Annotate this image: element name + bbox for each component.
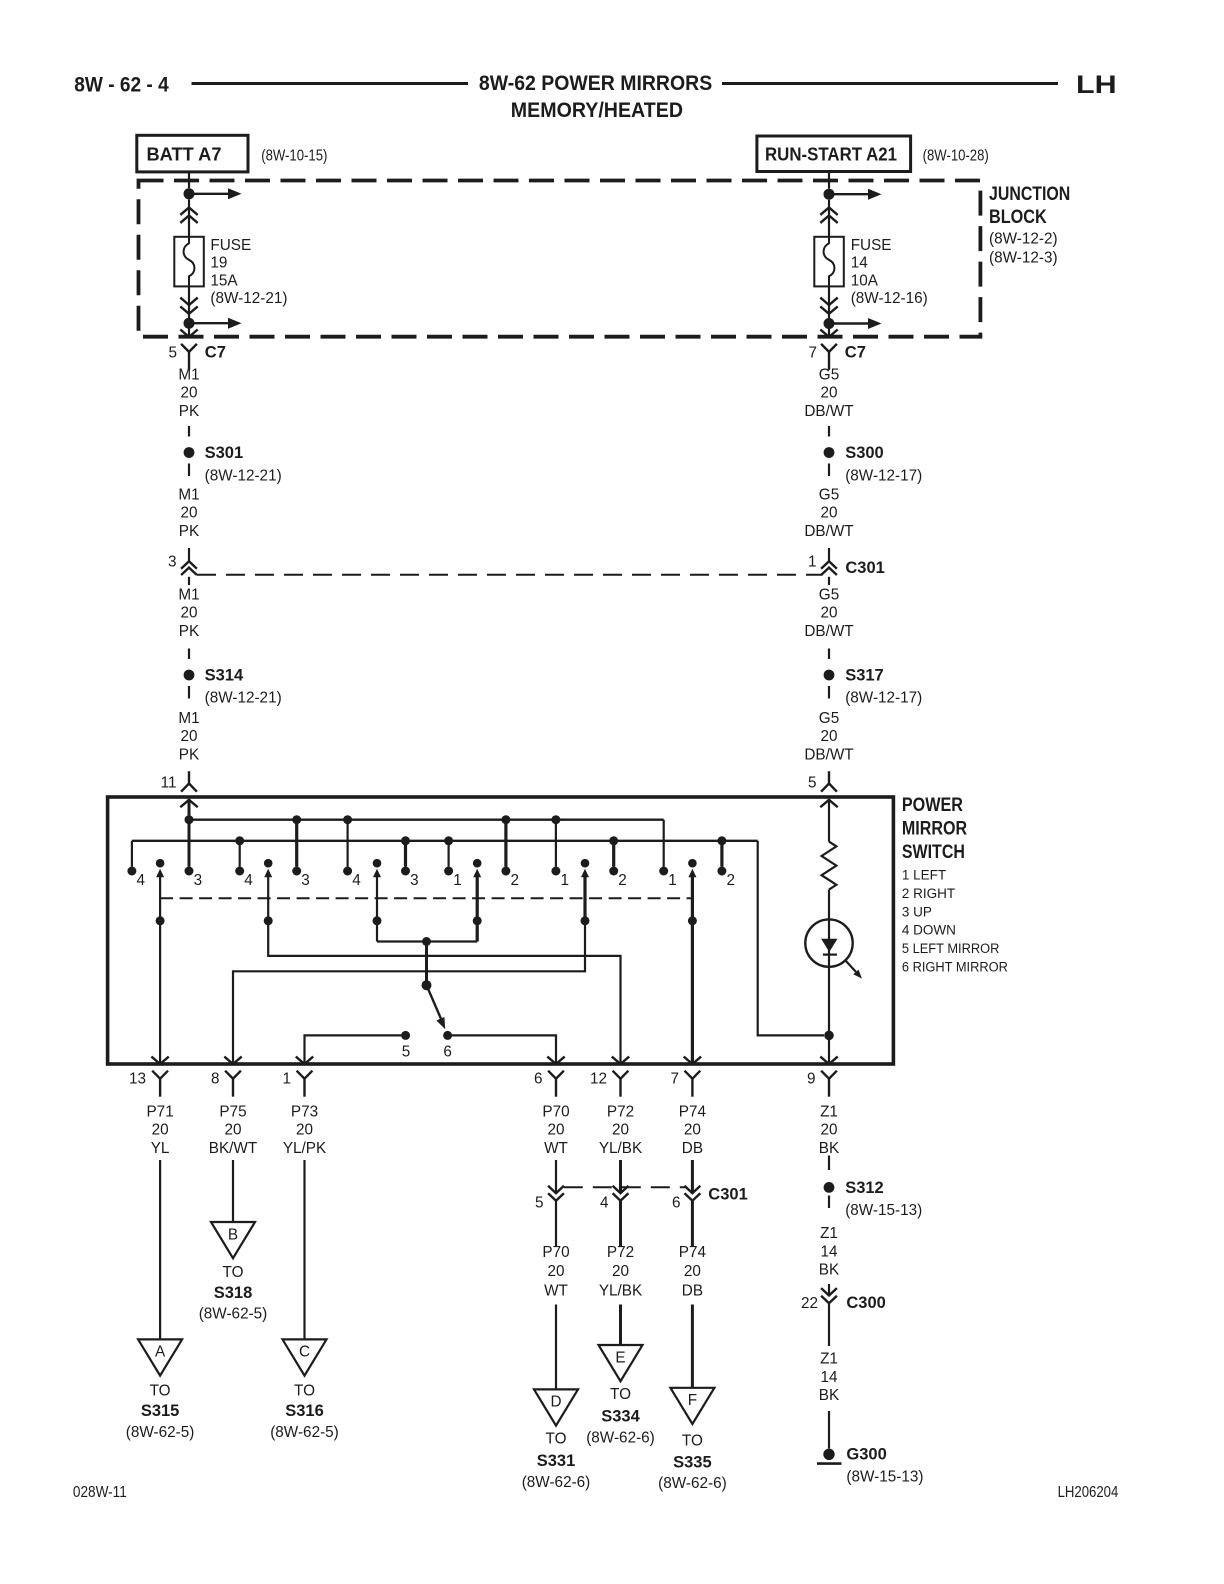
- fixed contact 4 at x=347.6: [343, 867, 352, 876]
- svg-text:3: 3: [194, 872, 203, 889]
- svg-text:2: 2: [727, 872, 736, 889]
- svg-text:G5: G5: [819, 487, 839, 504]
- svg-text:8W - 62 - 4: 8W - 62 - 4: [74, 74, 169, 97]
- wire C301 pin 4 down: [619, 1201, 622, 1246]
- svg-text:PK: PK: [179, 746, 200, 763]
- svg-text:PK: PK: [179, 623, 200, 640]
- fixed contact 2 at x=613.7: [609, 867, 618, 876]
- ground G300: [823, 1449, 834, 1460]
- svg-text:2: 2: [511, 872, 520, 889]
- svg-text:2 RIGHT: 2 RIGHT: [902, 886, 955, 901]
- fixed contact 4 at x=239.7: [235, 867, 244, 876]
- svg-text:(8W-62-5): (8W-62-5): [270, 1424, 339, 1441]
- wire P70 to triangle D: [555, 1305, 557, 1390]
- node battery feed splice: [184, 188, 195, 199]
- connector C301 pin 4: [613, 1186, 629, 1193]
- wire G5 to C301: [828, 548, 830, 561]
- svg-text:TO: TO: [150, 1383, 171, 1400]
- wire stub to contact 3b: [404, 841, 407, 867]
- wire P72 to triangle E: [619, 1305, 622, 1346]
- wire P71 to triangle A: [159, 1160, 161, 1339]
- svg-text:20: 20: [180, 385, 197, 402]
- svg-text:S314: S314: [205, 667, 244, 685]
- wire bus ground right branch to lamp return: [758, 841, 824, 1036]
- off-page triangle A: [138, 1339, 182, 1375]
- svg-text:20: 20: [612, 1122, 629, 1139]
- svg-text:C301: C301: [845, 559, 884, 577]
- svg-text:G5: G5: [819, 367, 839, 384]
- wire P72 to C301: [619, 1160, 622, 1193]
- dashed connector line C301: [197, 574, 823, 576]
- node bus ground tap 5: [717, 836, 726, 845]
- svg-text:(8W-12-21): (8W-12-21): [210, 290, 287, 307]
- connector chevrons fuse 14 output: [820, 298, 837, 305]
- svg-text:P71: P71: [146, 1104, 173, 1121]
- wire stub to contact 4b: [347, 820, 349, 867]
- svg-text:DB: DB: [682, 1282, 703, 1299]
- connector C301 pin 6: [685, 1186, 701, 1193]
- wire M1 to C301: [188, 548, 190, 561]
- svg-text:1: 1: [668, 872, 677, 889]
- svg-text:BATT A7: BATT A7: [147, 144, 222, 165]
- wire stub to contact 2c: [720, 841, 723, 867]
- wire S317 down: [828, 686, 830, 699]
- selector contact 6: [443, 1031, 452, 1040]
- wire C301 pin 1 down: [828, 577, 830, 585]
- svg-text:TO: TO: [546, 1431, 567, 1448]
- power mirror switch outline: [108, 797, 894, 1064]
- svg-text:2: 2: [618, 872, 627, 889]
- fuse 19 15A: [174, 237, 204, 287]
- svg-text:S315: S315: [141, 1402, 180, 1420]
- node bus ground tap 2: [401, 836, 410, 845]
- wire BATT A7 feed into junction block: [188, 172, 190, 188]
- svg-text:WT: WT: [544, 1140, 568, 1157]
- arrow feed to other circuits (top right): [829, 193, 868, 195]
- svg-text:20: 20: [684, 1263, 701, 1280]
- junction block dashed border: [139, 181, 981, 337]
- svg-text:(8W-15-13): (8W-15-13): [845, 1202, 922, 1219]
- svg-text:DB: DB: [682, 1140, 703, 1157]
- resistor illumination: [822, 842, 837, 890]
- node bus B+ tap 1: [292, 815, 301, 824]
- wire C301 pin 5 down: [555, 1201, 557, 1246]
- connector C301 pin 3: [181, 561, 197, 568]
- svg-text:DB/WT: DB/WT: [804, 403, 853, 420]
- svg-text:M1: M1: [178, 367, 199, 384]
- arrow feed to other circuits (top left): [189, 193, 228, 195]
- connector chevrons fuse 19 input: [180, 208, 197, 215]
- svg-text:(8W-62-6): (8W-62-6): [658, 1475, 727, 1492]
- wire wiper6 to pin 7: [691, 921, 694, 1063]
- svg-text:TO: TO: [682, 1433, 703, 1450]
- splice S301: [184, 447, 195, 458]
- svg-text:P70: P70: [542, 1244, 569, 1261]
- svg-text:C7: C7: [845, 344, 866, 362]
- selector contact 5: [401, 1031, 410, 1040]
- connector pin 1: [297, 1071, 313, 1079]
- wire RUN-START A21 feed into junction block: [828, 172, 830, 189]
- node lamp return: [824, 1031, 834, 1041]
- movable contact wiper 2: [264, 859, 273, 868]
- splice S314: [184, 670, 195, 681]
- svg-text:S318: S318: [214, 1284, 253, 1302]
- svg-text:3: 3: [168, 554, 177, 571]
- header rule left: [192, 82, 469, 85]
- svg-text:WT: WT: [544, 1282, 568, 1299]
- svg-text:4: 4: [600, 1195, 609, 1212]
- off-page triangle B: [211, 1222, 255, 1258]
- feed box BATT A7: [137, 135, 248, 172]
- svg-text:20: 20: [296, 1122, 313, 1139]
- svg-text:(8W-62-6): (8W-62-6): [586, 1430, 655, 1447]
- svg-text:S300: S300: [845, 444, 884, 462]
- svg-text:7: 7: [808, 345, 817, 362]
- switch pin 8 exit chevron: [224, 1057, 241, 1064]
- svg-text:A: A: [155, 1344, 166, 1361]
- svg-text:MIRROR: MIRROR: [902, 819, 967, 840]
- svg-text:6: 6: [672, 1195, 681, 1212]
- svg-text:(8W-12-2): (8W-12-2): [989, 231, 1058, 248]
- svg-text:RUN-START A21: RUN-START A21: [765, 144, 897, 165]
- wire lamp return to pin 9: [828, 1035, 830, 1063]
- switch pin 5 entry chevron: [820, 800, 837, 807]
- svg-text:P74: P74: [679, 1244, 707, 1261]
- wire S300 down: [828, 464, 830, 477]
- svg-text:B: B: [228, 1226, 238, 1243]
- svg-text:20: 20: [820, 605, 837, 622]
- off-page triangle C: [283, 1339, 327, 1375]
- node bus B+ tap 3: [501, 815, 510, 824]
- svg-text:13: 13: [129, 1071, 146, 1088]
- svg-text:LH206204: LH206204: [1058, 1484, 1119, 1501]
- wire Z1 to G300: [828, 1411, 830, 1449]
- svg-text:BK: BK: [819, 1140, 840, 1157]
- svg-text:14: 14: [820, 1243, 838, 1260]
- svg-text:F: F: [688, 1392, 697, 1409]
- connector pin 12: [613, 1071, 629, 1079]
- connector chevrons fuse 19 output: [180, 298, 197, 305]
- node fused B+ splice: [184, 318, 195, 329]
- svg-text:20: 20: [547, 1122, 564, 1139]
- wire P70 to C301: [555, 1160, 557, 1193]
- node bus ground tap 4: [609, 836, 618, 845]
- off-page triangle F: [670, 1388, 714, 1424]
- svg-text:20: 20: [180, 728, 197, 745]
- connector C7 pin 7: [821, 344, 837, 352]
- wire P75 to triangle B: [232, 1160, 234, 1222]
- arrow fused output to other circuits (right): [829, 322, 868, 324]
- svg-text:BK/WT: BK/WT: [209, 1140, 257, 1157]
- switch pin 6 exit chevron: [547, 1057, 564, 1064]
- svg-text:9: 9: [807, 1071, 816, 1088]
- wire S314 down: [188, 686, 190, 699]
- svg-text:(8W-62-5): (8W-62-5): [199, 1306, 268, 1323]
- wire C300 down: [828, 1303, 830, 1346]
- wire fuse 14 output: [828, 286, 830, 336]
- svg-text:G5: G5: [819, 710, 839, 727]
- svg-text:PK: PK: [179, 403, 200, 420]
- wire stub to contact 2a: [504, 820, 507, 867]
- svg-text:Z1: Z1: [820, 1351, 838, 1368]
- svg-text:C: C: [299, 1344, 310, 1361]
- svg-text:1: 1: [561, 872, 570, 889]
- svg-text:S335: S335: [673, 1454, 712, 1472]
- splice S300: [824, 447, 835, 458]
- svg-text:G5: G5: [819, 587, 839, 604]
- fixed contact 1 at x=555.9: [551, 867, 560, 876]
- wire stub to contact 1b: [555, 820, 557, 867]
- movable contact wiper 3: [373, 859, 382, 868]
- fuse 14 10A: [814, 237, 844, 287]
- wire stub to contact 2b: [612, 841, 615, 867]
- wire M1 to S301: [188, 426, 190, 437]
- svg-text:P75: P75: [219, 1104, 246, 1121]
- svg-text:YL/BK: YL/BK: [599, 1140, 643, 1157]
- svg-text:DB/WT: DB/WT: [804, 746, 853, 763]
- movable contact wiper 1: [156, 859, 165, 868]
- svg-text:028W-11: 028W-11: [73, 1484, 127, 1501]
- connector C301 pin 5: [548, 1186, 564, 1193]
- svg-text:20: 20: [180, 505, 197, 522]
- svg-text:20: 20: [612, 1263, 629, 1280]
- svg-text:20: 20: [180, 605, 197, 622]
- svg-text:G300: G300: [846, 1446, 886, 1464]
- wire bus ground left corner down to contact 4: [131, 841, 133, 867]
- svg-text:FUSE: FUSE: [851, 237, 892, 254]
- connector pin 6: [548, 1071, 564, 1079]
- connector C7 pin 5: [181, 344, 197, 352]
- svg-text:6: 6: [443, 1044, 452, 1061]
- switch pin 13 exit chevron: [151, 1057, 168, 1064]
- node bus B+ tap 4: [551, 815, 560, 824]
- svg-text:Z1: Z1: [820, 1104, 838, 1121]
- fixed contact 2 at x=721.9: [717, 867, 726, 876]
- svg-text:P70: P70: [542, 1104, 569, 1121]
- switch pin 7 exit chevron: [684, 1057, 701, 1064]
- connector C301 pin 1: [821, 561, 837, 568]
- feed box RUN-START A21: [757, 136, 911, 172]
- wire common to selector pole: [425, 942, 428, 986]
- svg-text:DB/WT: DB/WT: [804, 523, 853, 540]
- svg-text:(8W-12-21): (8W-12-21): [205, 690, 282, 707]
- svg-text:20: 20: [684, 1122, 701, 1139]
- svg-text:(8W-10-28): (8W-10-28): [923, 148, 989, 165]
- svg-text:(8W-15-13): (8W-15-13): [846, 1469, 923, 1486]
- svg-text:P72: P72: [607, 1244, 634, 1261]
- svg-text:YL/PK: YL/PK: [283, 1140, 327, 1157]
- wire fuse 19 output: [188, 286, 190, 336]
- connector pin 13: [152, 1071, 168, 1079]
- wire feed to fuse 19: [188, 199, 190, 237]
- svg-text:(8W-62-5): (8W-62-5): [126, 1424, 195, 1441]
- svg-text:M1: M1: [178, 487, 199, 504]
- arrow fused B+ to other circuits (left): [189, 322, 228, 324]
- svg-text:12: 12: [590, 1071, 607, 1088]
- splice S317: [824, 670, 835, 681]
- svg-text:20: 20: [547, 1263, 564, 1280]
- node fused run-start splice: [824, 318, 835, 329]
- node selector common: [422, 937, 431, 946]
- svg-text:M1: M1: [178, 710, 199, 727]
- svg-text:SWITCH: SWITCH: [902, 842, 965, 863]
- wire stub to contact 1a: [448, 841, 450, 867]
- svg-text:5: 5: [168, 345, 177, 362]
- fixed contact 1 at x=663.7: [659, 867, 668, 876]
- junction block exit chevron right: [820, 330, 837, 337]
- connector C300 pin 22: [821, 1288, 837, 1295]
- wire G5 to S300: [828, 426, 830, 437]
- svg-text:BLOCK: BLOCK: [989, 207, 1047, 228]
- wire C301 down: [188, 577, 190, 585]
- svg-text:(8W-12-16): (8W-12-16): [851, 290, 928, 307]
- svg-text:4 DOWN: 4 DOWN: [902, 923, 956, 938]
- wire wiper4 to common: [476, 921, 479, 942]
- fixed contact 3 at x=405.5: [401, 867, 410, 876]
- svg-text:D: D: [550, 1394, 561, 1411]
- svg-text:1: 1: [808, 554, 817, 571]
- off-page triangle E: [599, 1345, 643, 1381]
- wire S301 down: [188, 464, 190, 477]
- wire P73 to triangle C: [303, 1160, 305, 1339]
- wire wiper2 to pin 12: [268, 921, 620, 1063]
- svg-text:4: 4: [352, 872, 361, 889]
- svg-text:15A: 15A: [210, 272, 238, 289]
- wire M1 to S314: [188, 649, 190, 660]
- wire resistor to lamp: [828, 890, 830, 1031]
- header rule right: [722, 82, 1058, 85]
- svg-text:BK: BK: [819, 1262, 840, 1279]
- switch pin 9 exit chevron: [820, 1057, 837, 1064]
- svg-text:14: 14: [851, 255, 869, 272]
- svg-text:FUSE: FUSE: [210, 237, 251, 254]
- svg-text:P73: P73: [291, 1104, 318, 1121]
- movable contact wiper 4: [473, 859, 482, 868]
- junction block exit chevron left: [180, 330, 197, 337]
- wire G5 to S317: [828, 649, 830, 660]
- fixed contact 3 at x=296.7: [292, 867, 301, 876]
- connector pin 7: [685, 1071, 701, 1079]
- svg-text:20: 20: [820, 385, 837, 402]
- svg-text:JUNCTION: JUNCTION: [989, 184, 1070, 205]
- svg-text:P74: P74: [679, 1104, 707, 1121]
- svg-text:6 RIGHT MIRROR: 6 RIGHT MIRROR: [902, 960, 1008, 975]
- svg-text:C300: C300: [846, 1294, 885, 1312]
- svg-text:C301: C301: [708, 1186, 747, 1204]
- svg-text:S331: S331: [537, 1452, 576, 1470]
- svg-text:1: 1: [453, 872, 462, 889]
- svg-text:5: 5: [535, 1195, 544, 1212]
- svg-text:1 LEFT: 1 LEFT: [902, 868, 946, 883]
- fixed contact 2 at x=505.9: [501, 867, 510, 876]
- svg-text:M1: M1: [178, 587, 199, 604]
- wire stub to contact 3a: [295, 820, 298, 867]
- wire pin 11 feed to contact 3: [188, 799, 191, 867]
- off-page triangle D: [534, 1389, 578, 1425]
- node bus B+ at feed: [185, 815, 194, 824]
- svg-text:(8W-12-17): (8W-12-17): [845, 690, 922, 707]
- svg-text:20: 20: [152, 1122, 169, 1139]
- wire Z1 to C300: [828, 1284, 830, 1296]
- wire contact 6 to pin 6: [448, 1035, 556, 1063]
- svg-text:7: 7: [670, 1071, 679, 1088]
- connector pin 8: [225, 1071, 241, 1079]
- movable contact wiper 6: [688, 859, 697, 868]
- wire P74 to C301: [691, 1160, 694, 1193]
- wire stub to contact 4a: [239, 841, 241, 867]
- svg-text:TO: TO: [610, 1386, 631, 1403]
- svg-text:(8W-12-3): (8W-12-3): [989, 250, 1058, 267]
- svg-text:BK: BK: [819, 1387, 840, 1404]
- svg-text:5 LEFT MIRROR: 5 LEFT MIRROR: [902, 941, 1000, 956]
- svg-text:20: 20: [820, 728, 837, 745]
- svg-text:E: E: [615, 1349, 625, 1366]
- connector chevrons fuse 14 input: [820, 208, 837, 215]
- svg-text:DB/WT: DB/WT: [804, 623, 853, 640]
- svg-text:3 UP: 3 UP: [902, 904, 932, 919]
- fixed contact 3 at x=189: [185, 867, 194, 876]
- svg-text:20: 20: [820, 505, 837, 522]
- switch pin 1 exit chevron: [296, 1057, 313, 1064]
- svg-text:20: 20: [820, 1122, 837, 1139]
- svg-text:TO: TO: [223, 1264, 244, 1281]
- svg-text:4: 4: [244, 872, 253, 889]
- connector pin 9: [821, 1071, 837, 1079]
- bus ground (lower): [132, 840, 758, 842]
- wire wiper5 to pin 8: [233, 921, 585, 1063]
- svg-text:P72: P72: [607, 1104, 634, 1121]
- svg-text:14: 14: [820, 1369, 838, 1386]
- svg-text:S312: S312: [845, 1179, 884, 1197]
- splice S312: [824, 1182, 835, 1193]
- svg-text:YL/BK: YL/BK: [599, 1282, 643, 1299]
- wire wiper1 to pin 13: [159, 921, 161, 1063]
- svg-text:(8W-12-21): (8W-12-21): [205, 468, 282, 485]
- node bus ground tap 3: [444, 836, 453, 845]
- svg-text:LH: LH: [1076, 71, 1117, 99]
- wire feed to fuse 14: [828, 200, 830, 237]
- svg-text:6: 6: [534, 1071, 543, 1088]
- svg-text:Z1: Z1: [820, 1225, 838, 1242]
- wire P74 to triangle F: [691, 1305, 694, 1388]
- wire pin 5 to resistor: [828, 799, 830, 842]
- node bus ground tap 1: [235, 836, 244, 845]
- svg-text:YL: YL: [151, 1140, 170, 1157]
- svg-text:POWER: POWER: [902, 795, 963, 816]
- wire C301 pin 6 down: [691, 1201, 694, 1246]
- fixed contact 4 at x=131.9: [127, 867, 136, 876]
- svg-text:1: 1: [282, 1071, 291, 1088]
- svg-text:S334: S334: [601, 1408, 640, 1426]
- selector wiper arm to position 6: [427, 985, 442, 1019]
- svg-text:(8W-12-17): (8W-12-17): [845, 468, 922, 485]
- svg-text:22: 22: [801, 1295, 818, 1312]
- svg-text:4: 4: [137, 872, 146, 889]
- svg-text:S316: S316: [285, 1402, 324, 1420]
- svg-text:(8W-62-6): (8W-62-6): [522, 1474, 591, 1491]
- wire Z1 to S312: [828, 1156, 830, 1171]
- svg-text:MEMORY/HEATED: MEMORY/HEATED: [511, 99, 683, 122]
- svg-text:19: 19: [210, 255, 227, 272]
- svg-text:3: 3: [301, 872, 310, 889]
- illumination LED lamp: [805, 919, 852, 966]
- svg-text:3: 3: [410, 872, 419, 889]
- svg-text:8W-62 POWER MIRRORS: 8W-62 POWER MIRRORS: [479, 72, 712, 95]
- svg-text:S317: S317: [845, 667, 884, 685]
- fixed contact 1 at x=448.6: [444, 867, 453, 876]
- svg-text:C7: C7: [205, 344, 226, 362]
- node bus B+ tap 2: [343, 815, 352, 824]
